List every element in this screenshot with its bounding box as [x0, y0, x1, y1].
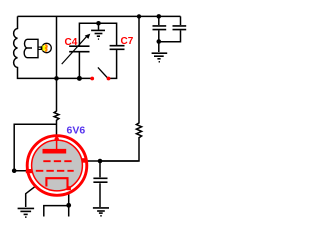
- svg-text:6V6: 6V6: [67, 124, 86, 136]
- svg-text:C7: C7: [121, 36, 134, 47]
- svg-text:C4: C4: [65, 37, 78, 48]
